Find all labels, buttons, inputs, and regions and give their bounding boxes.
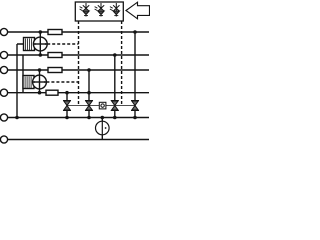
- inlet connection 3: [0, 66, 7, 73]
- pipe line D: [8, 92, 149, 94]
- nozzle N1: [80, 3, 90, 17]
- instrument riser: [101, 118, 103, 140]
- valve V4: [131, 101, 139, 111]
- flexible joint on line D: [46, 90, 58, 95]
- flexible joint on line A: [48, 30, 62, 35]
- pump unit P1 motor box: [24, 38, 35, 51]
- pipe line C: [8, 69, 149, 71]
- actuator box: [99, 102, 106, 109]
- pump unit P1 impeller: [33, 37, 47, 51]
- pipe line E (valve manifold): [8, 117, 149, 119]
- pipe line F (bottom): [8, 139, 149, 141]
- nozzle box: [75, 2, 123, 21]
- pump unit P2 impeller: [33, 75, 47, 89]
- inlet connection 2: [0, 51, 7, 58]
- actuator linkage line: [67, 105, 135, 107]
- right bus riser to valve V4: [134, 32, 136, 118]
- junction dots: [15, 30, 137, 119]
- control drop from nozzle box left (dashed): [78, 21, 80, 106]
- flexible joint on line C: [48, 68, 62, 73]
- riser to valve V1: [66, 93, 68, 118]
- pump unit P2 motor box: [23, 76, 34, 89]
- pump P2 riser: [39, 70, 41, 93]
- valve V3: [111, 101, 119, 111]
- left standpipe from line B to pump P2: [23, 55, 24, 93]
- left standpipe from pump P1 to line E: [17, 44, 25, 118]
- control line from pump P2 (dashed): [46, 81, 78, 83]
- valve V1: [63, 101, 71, 111]
- control drop from nozzle box right (dashed): [121, 21, 123, 106]
- valve V2: [85, 101, 93, 111]
- riser to valve V3: [114, 55, 116, 118]
- pump P1 riser: [39, 32, 41, 55]
- instrument circle: [96, 121, 110, 135]
- pipe line A: [8, 31, 149, 33]
- inlet connection 1: [0, 28, 7, 35]
- riser to valve V2: [88, 70, 90, 118]
- pipe line B: [8, 54, 149, 56]
- nozzle N2: [95, 3, 105, 17]
- flexible joint on line B: [48, 53, 62, 58]
- control line from pump P1 (dashed): [47, 43, 78, 45]
- inlet connection 4: [0, 89, 7, 96]
- inlet connection 5: [0, 114, 7, 121]
- inlet connection 6: [0, 136, 7, 143]
- nozzle N3: [110, 3, 120, 17]
- discharge arrow: [126, 2, 150, 19]
